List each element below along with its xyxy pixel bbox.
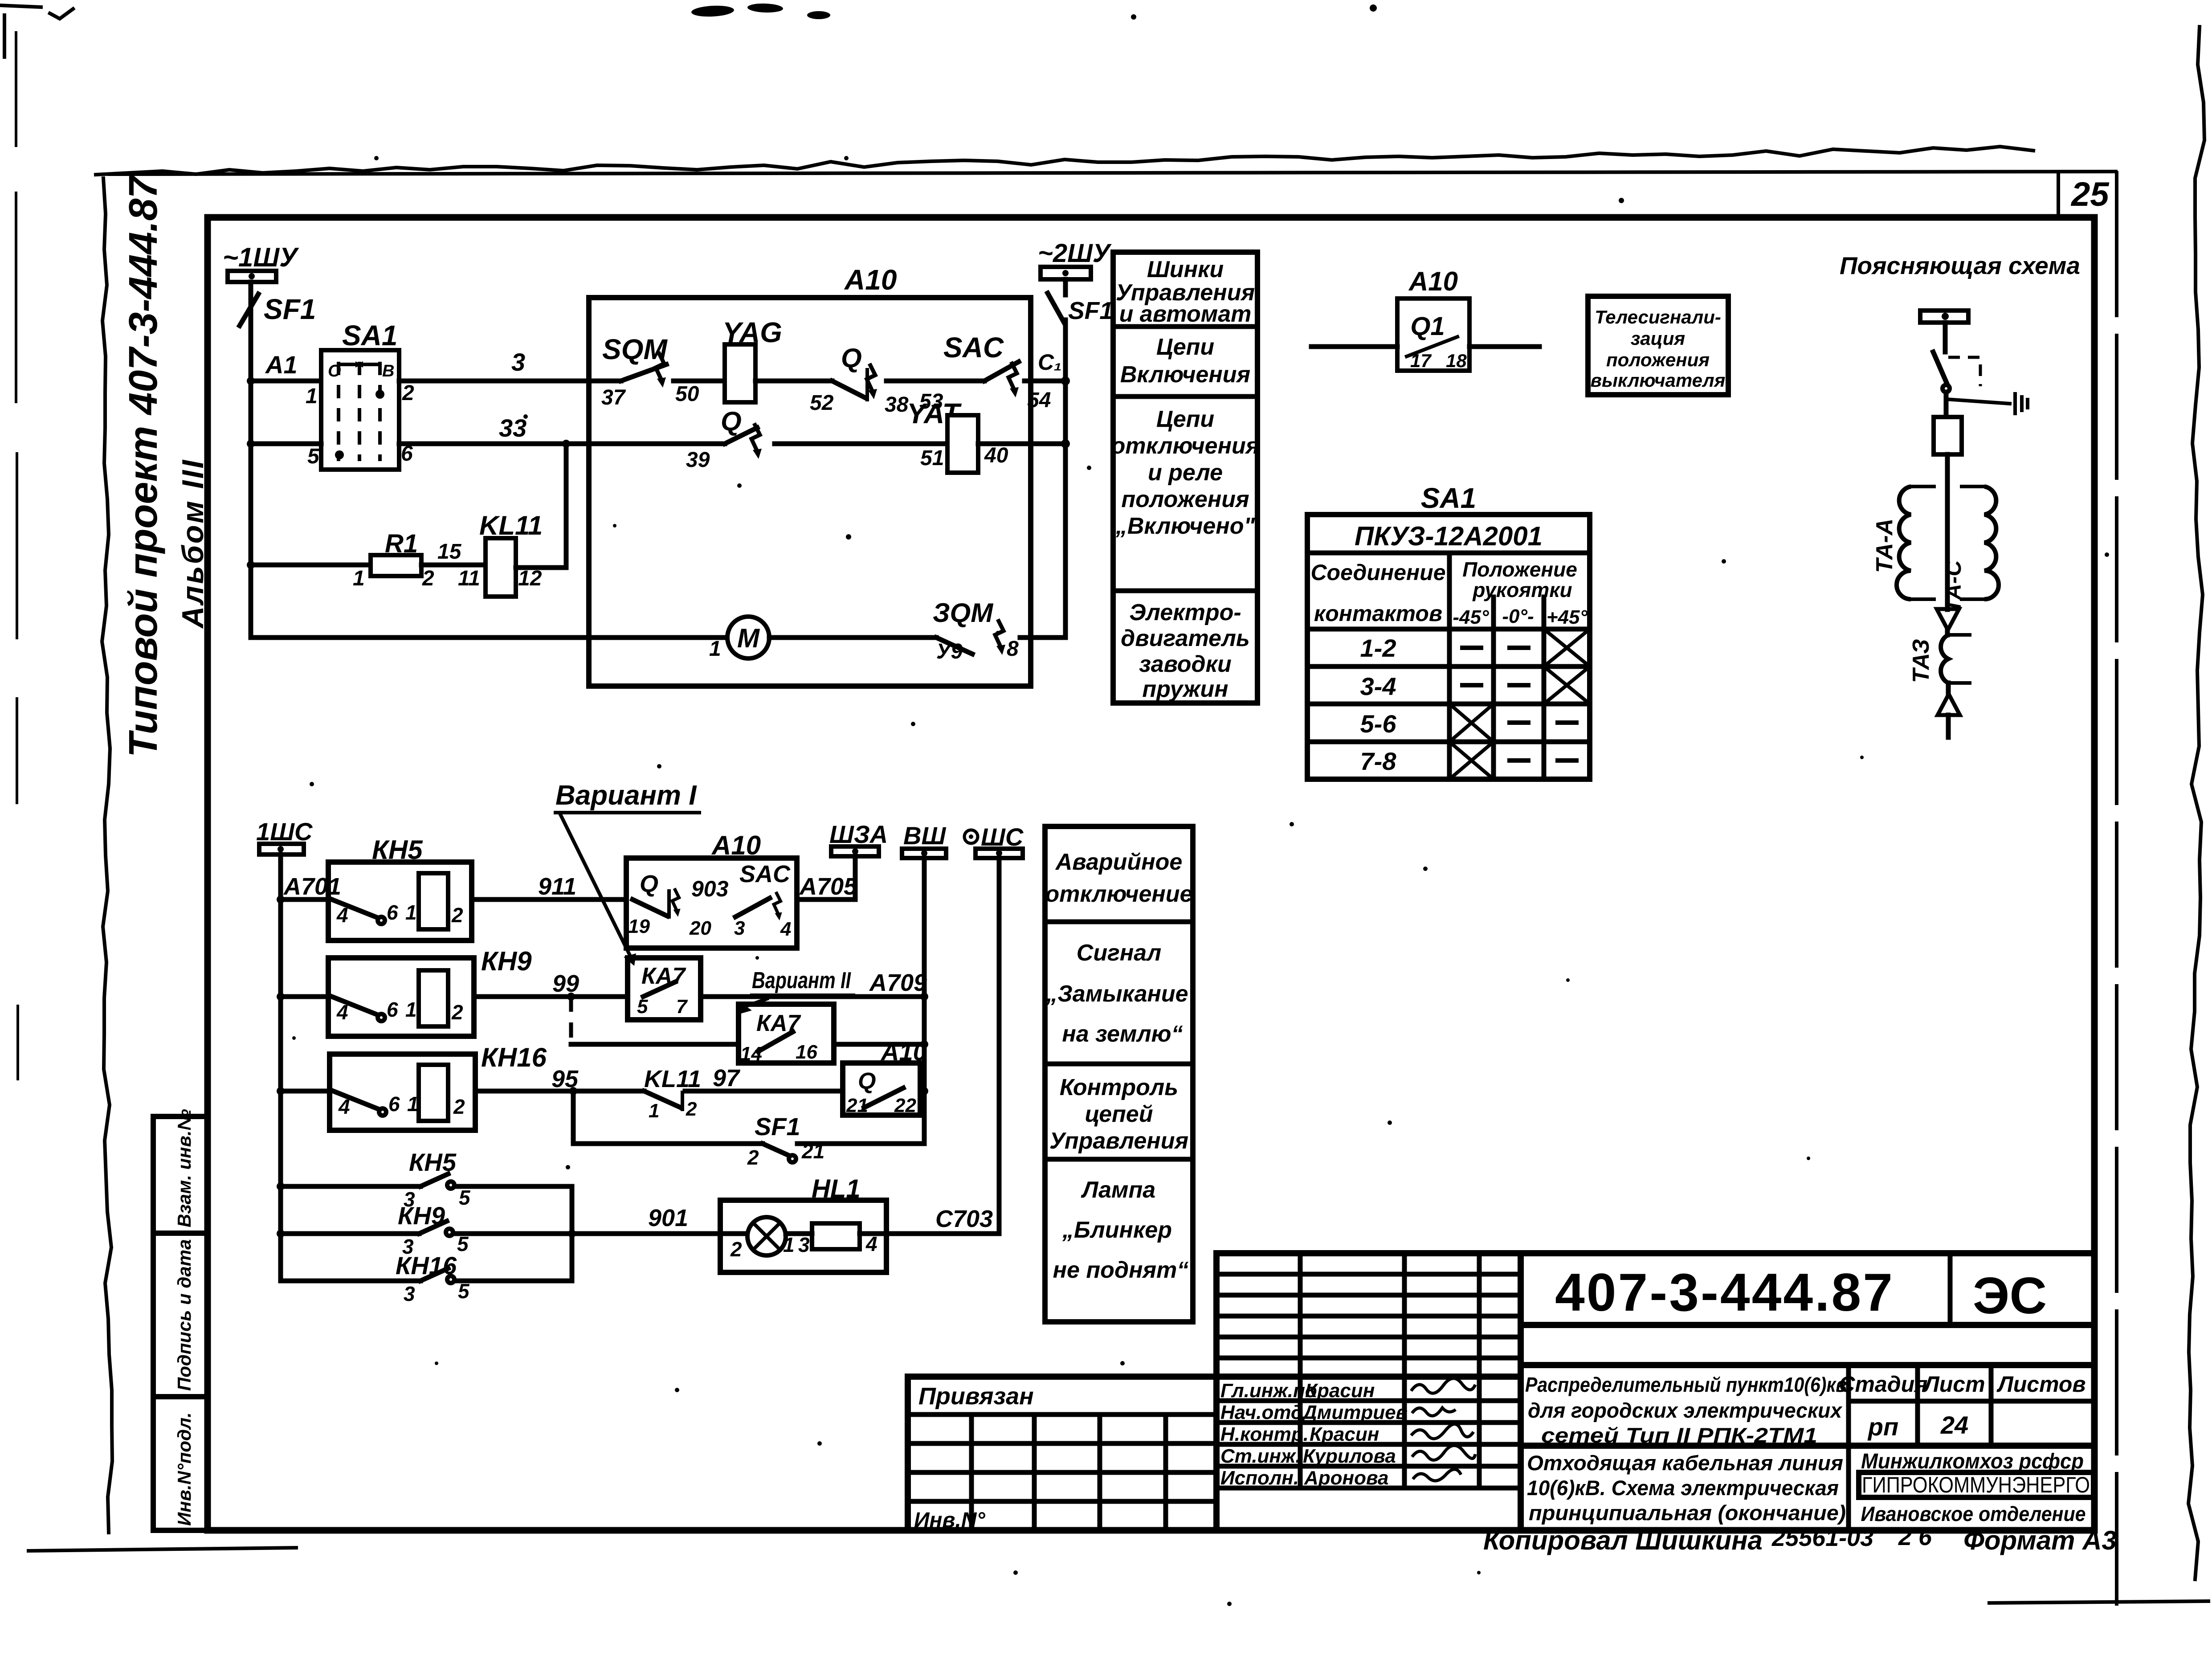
svg-text:5-6: 5-6 [1360,710,1397,738]
svg-text:Отходящая кабельная линия: Отходящая кабельная линия [1527,1451,1843,1475]
svg-text:Q: Q [640,871,658,897]
svg-text:2 6: 2 6 [1898,1524,1932,1550]
svg-text:Q: Q [721,406,742,436]
svg-text:24: 24 [1940,1411,1968,1439]
svg-text:1: 1 [306,384,318,408]
svg-text:Н.контр.: Н.контр. [1220,1423,1309,1445]
svg-text:положения: положения [1606,349,1710,370]
svg-text:39: 39 [686,448,710,472]
svg-text:положения: положения [1121,487,1249,512]
svg-text:„Замыкание: „Замыкание [1045,981,1188,1007]
svg-text:4: 4 [338,1095,350,1118]
svg-text:заводки: заводки [1139,651,1232,677]
svg-text:3: 3 [404,1282,415,1305]
svg-text:SAC: SAC [943,331,1004,364]
svg-text:Аварийное: Аварийное [1055,849,1183,875]
svg-text:19: 19 [628,916,650,937]
svg-text:двигатель: двигатель [1121,625,1250,651]
svg-text:1: 1 [405,998,417,1021]
svg-text:18: 18 [1446,350,1467,371]
svg-text:отключение: отключение [1045,881,1192,907]
svg-text:-45°: -45° [1453,606,1489,628]
svg-text:22: 22 [894,1095,916,1116]
svg-text:КН9: КН9 [481,946,532,976]
svg-text:Лампа: Лампа [1081,1177,1155,1203]
svg-text:Листов: Листов [1996,1372,2085,1397]
svg-text:Q: Q [858,1068,876,1094]
svg-text:407-3-444.87: 407-3-444.87 [1555,1263,1894,1322]
svg-text:„Блинкер: „Блинкер [1062,1217,1172,1243]
svg-text:6: 6 [387,901,398,924]
svg-text:ШЗА: ШЗА [829,820,888,848]
svg-text:3-4: 3-4 [1360,672,1396,700]
svg-text:С₁: С₁ [1038,350,1062,375]
svg-text:Взам. инв.№: Взам. инв.№ [174,1109,195,1227]
svg-text:8: 8 [1007,637,1019,661]
svg-text:903: 903 [691,876,729,901]
svg-text:Вариант I: Вариант I [555,780,697,811]
svg-text:на землю“: на землю“ [1062,1021,1183,1047]
svg-text:Контроль: Контроль [1060,1075,1178,1100]
svg-text:А709: А709 [869,969,927,996]
svg-text:16: 16 [796,1041,817,1063]
svg-text:2: 2 [730,1238,742,1261]
svg-text:А701: А701 [283,873,341,900]
svg-text:выключателя: выключателя [1591,370,1726,391]
svg-text:Подпись и дата: Подпись и дата [174,1239,195,1391]
svg-text:-0°-: -0°- [1502,605,1534,627]
svg-text:Аронова: Аронова [1304,1467,1388,1489]
svg-text:SA1: SA1 [342,319,398,352]
svg-text:7: 7 [676,996,688,1018]
svg-text:2: 2 [451,903,463,927]
svg-text:и реле: и реле [1148,460,1223,486]
svg-text:Управления: Управления [1049,1128,1188,1154]
svg-text:У9: У9 [936,640,963,663]
svg-text:1-2: 1-2 [1360,634,1396,662]
svg-text:5: 5 [459,1186,471,1209]
svg-text:рукоятки: рукоятки [1472,578,1572,601]
svg-text:25561-03: 25561-03 [1771,1525,1873,1551]
svg-text:KL11: KL11 [479,511,543,540]
svg-text:Курилова: Курилова [1303,1445,1396,1467]
svg-text:Исполн.: Исполн. [1220,1467,1299,1489]
svg-text:А10: А10 [1408,266,1458,296]
svg-text:SA1: SA1 [1421,482,1477,514]
svg-text:12: 12 [518,567,542,590]
svg-text:4: 4 [780,918,791,940]
svg-text:для городских электрических: для городских электрических [1528,1398,1843,1422]
svg-text:не поднят“: не поднят“ [1053,1257,1189,1283]
svg-text:SF1: SF1 [264,293,316,325]
svg-text:40: 40 [984,444,1008,467]
svg-text:4: 4 [336,903,348,927]
svg-text:1: 1 [783,1233,795,1256]
svg-text:37: 37 [601,386,626,409]
svg-text:2: 2 [686,1098,697,1120]
svg-text:ЭС: ЭС [1973,1267,2047,1325]
svg-text:Q: Q [841,343,862,373]
svg-text:2: 2 [747,1146,759,1169]
svg-text:6: 6 [388,1092,400,1116]
svg-text:Формат А3: Формат А3 [1963,1525,2117,1555]
svg-text:КН16: КН16 [481,1042,547,1072]
svg-text:Привязан: Привязан [918,1383,1034,1410]
svg-text:KL11: KL11 [644,1066,701,1092]
svg-text:38: 38 [885,393,909,417]
svg-text:Дмитриев: Дмитриев [1301,1402,1408,1423]
svg-text:Положение: Положение [1462,558,1577,581]
svg-text:1: 1 [649,1100,659,1122]
svg-text:99: 99 [552,970,579,997]
svg-text:6: 6 [387,998,398,1021]
svg-text:Q1: Q1 [1410,312,1445,341]
svg-text:О: О [328,362,341,380]
svg-text:5: 5 [307,445,320,468]
svg-text:ТА-А: ТА-А [1872,519,1898,573]
svg-text:Шинки: Шинки [1147,257,1224,282]
svg-text:2: 2 [422,567,434,590]
svg-text:Лист: Лист [1922,1372,1985,1397]
svg-text:SF1: SF1 [1068,297,1113,324]
svg-text:и автомат: и автомат [1119,301,1252,327]
svg-text:Красин: Красин [1305,1380,1375,1402]
svg-text:51: 51 [920,446,944,470]
svg-text:Вариант II: Вариант II [752,968,851,993]
svg-text:ГИПРОКОММУНЭНЕРГО: ГИПРОКОММУНЭНЕРГО [1862,1472,2090,1497]
svg-text:Сигнал: Сигнал [1077,940,1161,966]
svg-text:SF1: SF1 [755,1112,800,1141]
svg-text:Поясняющая схема: Поясняющая схема [1840,252,2080,279]
svg-text:А10: А10 [880,1038,927,1066]
svg-text:ЗQМ: ЗQМ [933,598,994,628]
svg-text:Соединение: Соединение [1310,560,1445,585]
svg-text:~1ШУ: ~1ШУ [223,242,299,272]
svg-text:Цепи: Цепи [1156,406,1214,432]
svg-text:Цепи: Цепи [1156,334,1214,360]
svg-text:А10: А10 [844,264,897,296]
svg-text:SQM: SQM [602,333,668,365]
svg-text:Стадия: Стадия [1839,1372,1927,1397]
svg-text:2: 2 [402,381,414,405]
svg-text:Инв.N°: Инв.N° [914,1509,986,1532]
svg-text:1: 1 [405,901,417,924]
svg-text:5: 5 [637,996,648,1018]
svg-text:С703: С703 [935,1206,993,1232]
svg-text:ПКУЗ-12А2001: ПКУЗ-12А2001 [1355,521,1543,551]
svg-text:Гл.инж.по: Гл.инж.по [1220,1380,1317,1402]
svg-text:52: 52 [810,391,834,415]
svg-text:сетей Тип II РПК-2ТМ1: сетей Тип II РПК-2ТМ1 [1541,1423,1817,1447]
svg-text:50: 50 [675,382,699,406]
svg-text:1: 1 [353,567,365,590]
svg-text:цепей: цепей [1085,1101,1153,1127]
svg-text:Включения: Включения [1120,362,1250,388]
svg-text:17: 17 [1410,350,1432,371]
svg-text:3: 3 [511,348,525,376]
svg-text:А10: А10 [711,830,761,860]
svg-text:Типовой проект 407-3-444.87: Типовой проект 407-3-444.87 [121,174,166,757]
svg-text:Телесигнали-: Телесигнали- [1595,307,1721,327]
svg-text:3: 3 [798,1233,810,1256]
svg-text:1: 1 [709,637,721,661]
svg-text:14: 14 [740,1043,762,1065]
svg-text:97: 97 [713,1065,741,1092]
svg-text:901: 901 [648,1205,688,1231]
svg-text:11: 11 [458,567,480,590]
svg-text:7-8: 7-8 [1360,747,1397,775]
svg-text:принципиальная (окончание): принципиальная (окончание) [1529,1501,1846,1525]
svg-text:+45°: +45° [1547,606,1588,628]
svg-text:отключения: отключения [1111,433,1260,459]
svg-text:20: 20 [689,917,711,939]
svg-text:А705: А705 [799,873,857,900]
svg-text:„Включено": „Включено" [1115,513,1256,539]
svg-text:Инв.N°подл.: Инв.N°подл. [174,1412,195,1526]
svg-text:Ивановское отделение: Ивановское отделение [1861,1502,2086,1525]
svg-text:зация: зация [1631,328,1685,349]
svg-text:25: 25 [2070,176,2110,213]
svg-text:33: 33 [499,414,526,442]
svg-text:10(6)кВ. Схема электрическая: 10(6)кВ. Схема электрическая [1527,1476,1839,1500]
svg-text:~2ШУ: ~2ШУ [1038,239,1112,268]
svg-text:911: 911 [538,873,576,900]
svg-text:15: 15 [437,540,462,564]
svg-text:Распределительный пункт10(6)кв: Распределительный пункт10(6)кв [1525,1373,1847,1396]
svg-text:ТАЗ: ТАЗ [1908,639,1934,683]
svg-text:4: 4 [336,1001,348,1024]
svg-text:2: 2 [451,1001,463,1024]
svg-text:ТА-С: ТА-С [1941,560,1966,613]
svg-text:3: 3 [734,917,745,939]
svg-text:Копировал Шишкина: Копировал Шишкина [1483,1525,1763,1555]
svg-text:2: 2 [453,1095,465,1118]
svg-text:Нач.отд: Нач.отд [1220,1402,1303,1423]
svg-text:ВШ: ВШ [903,822,946,850]
svg-text:рп: рп [1867,1413,1898,1441]
svg-text:контактов: контактов [1314,601,1442,626]
svg-text:SAC: SAC [739,861,791,887]
svg-text:В: В [382,362,394,380]
svg-text:А1: А1 [265,351,298,379]
svg-text:Ст.инж.: Ст.инж. [1220,1445,1301,1467]
svg-text:Электро-: Электро- [1129,600,1241,625]
svg-text:пружин: пружин [1142,676,1228,702]
svg-text:1ШС: 1ШС [256,818,313,846]
svg-text:21: 21 [846,1095,868,1116]
svg-text:Красин: Красин [1310,1423,1379,1445]
svg-text:М: М [737,623,760,653]
svg-text:Альбом III: Альбом III [176,458,210,629]
